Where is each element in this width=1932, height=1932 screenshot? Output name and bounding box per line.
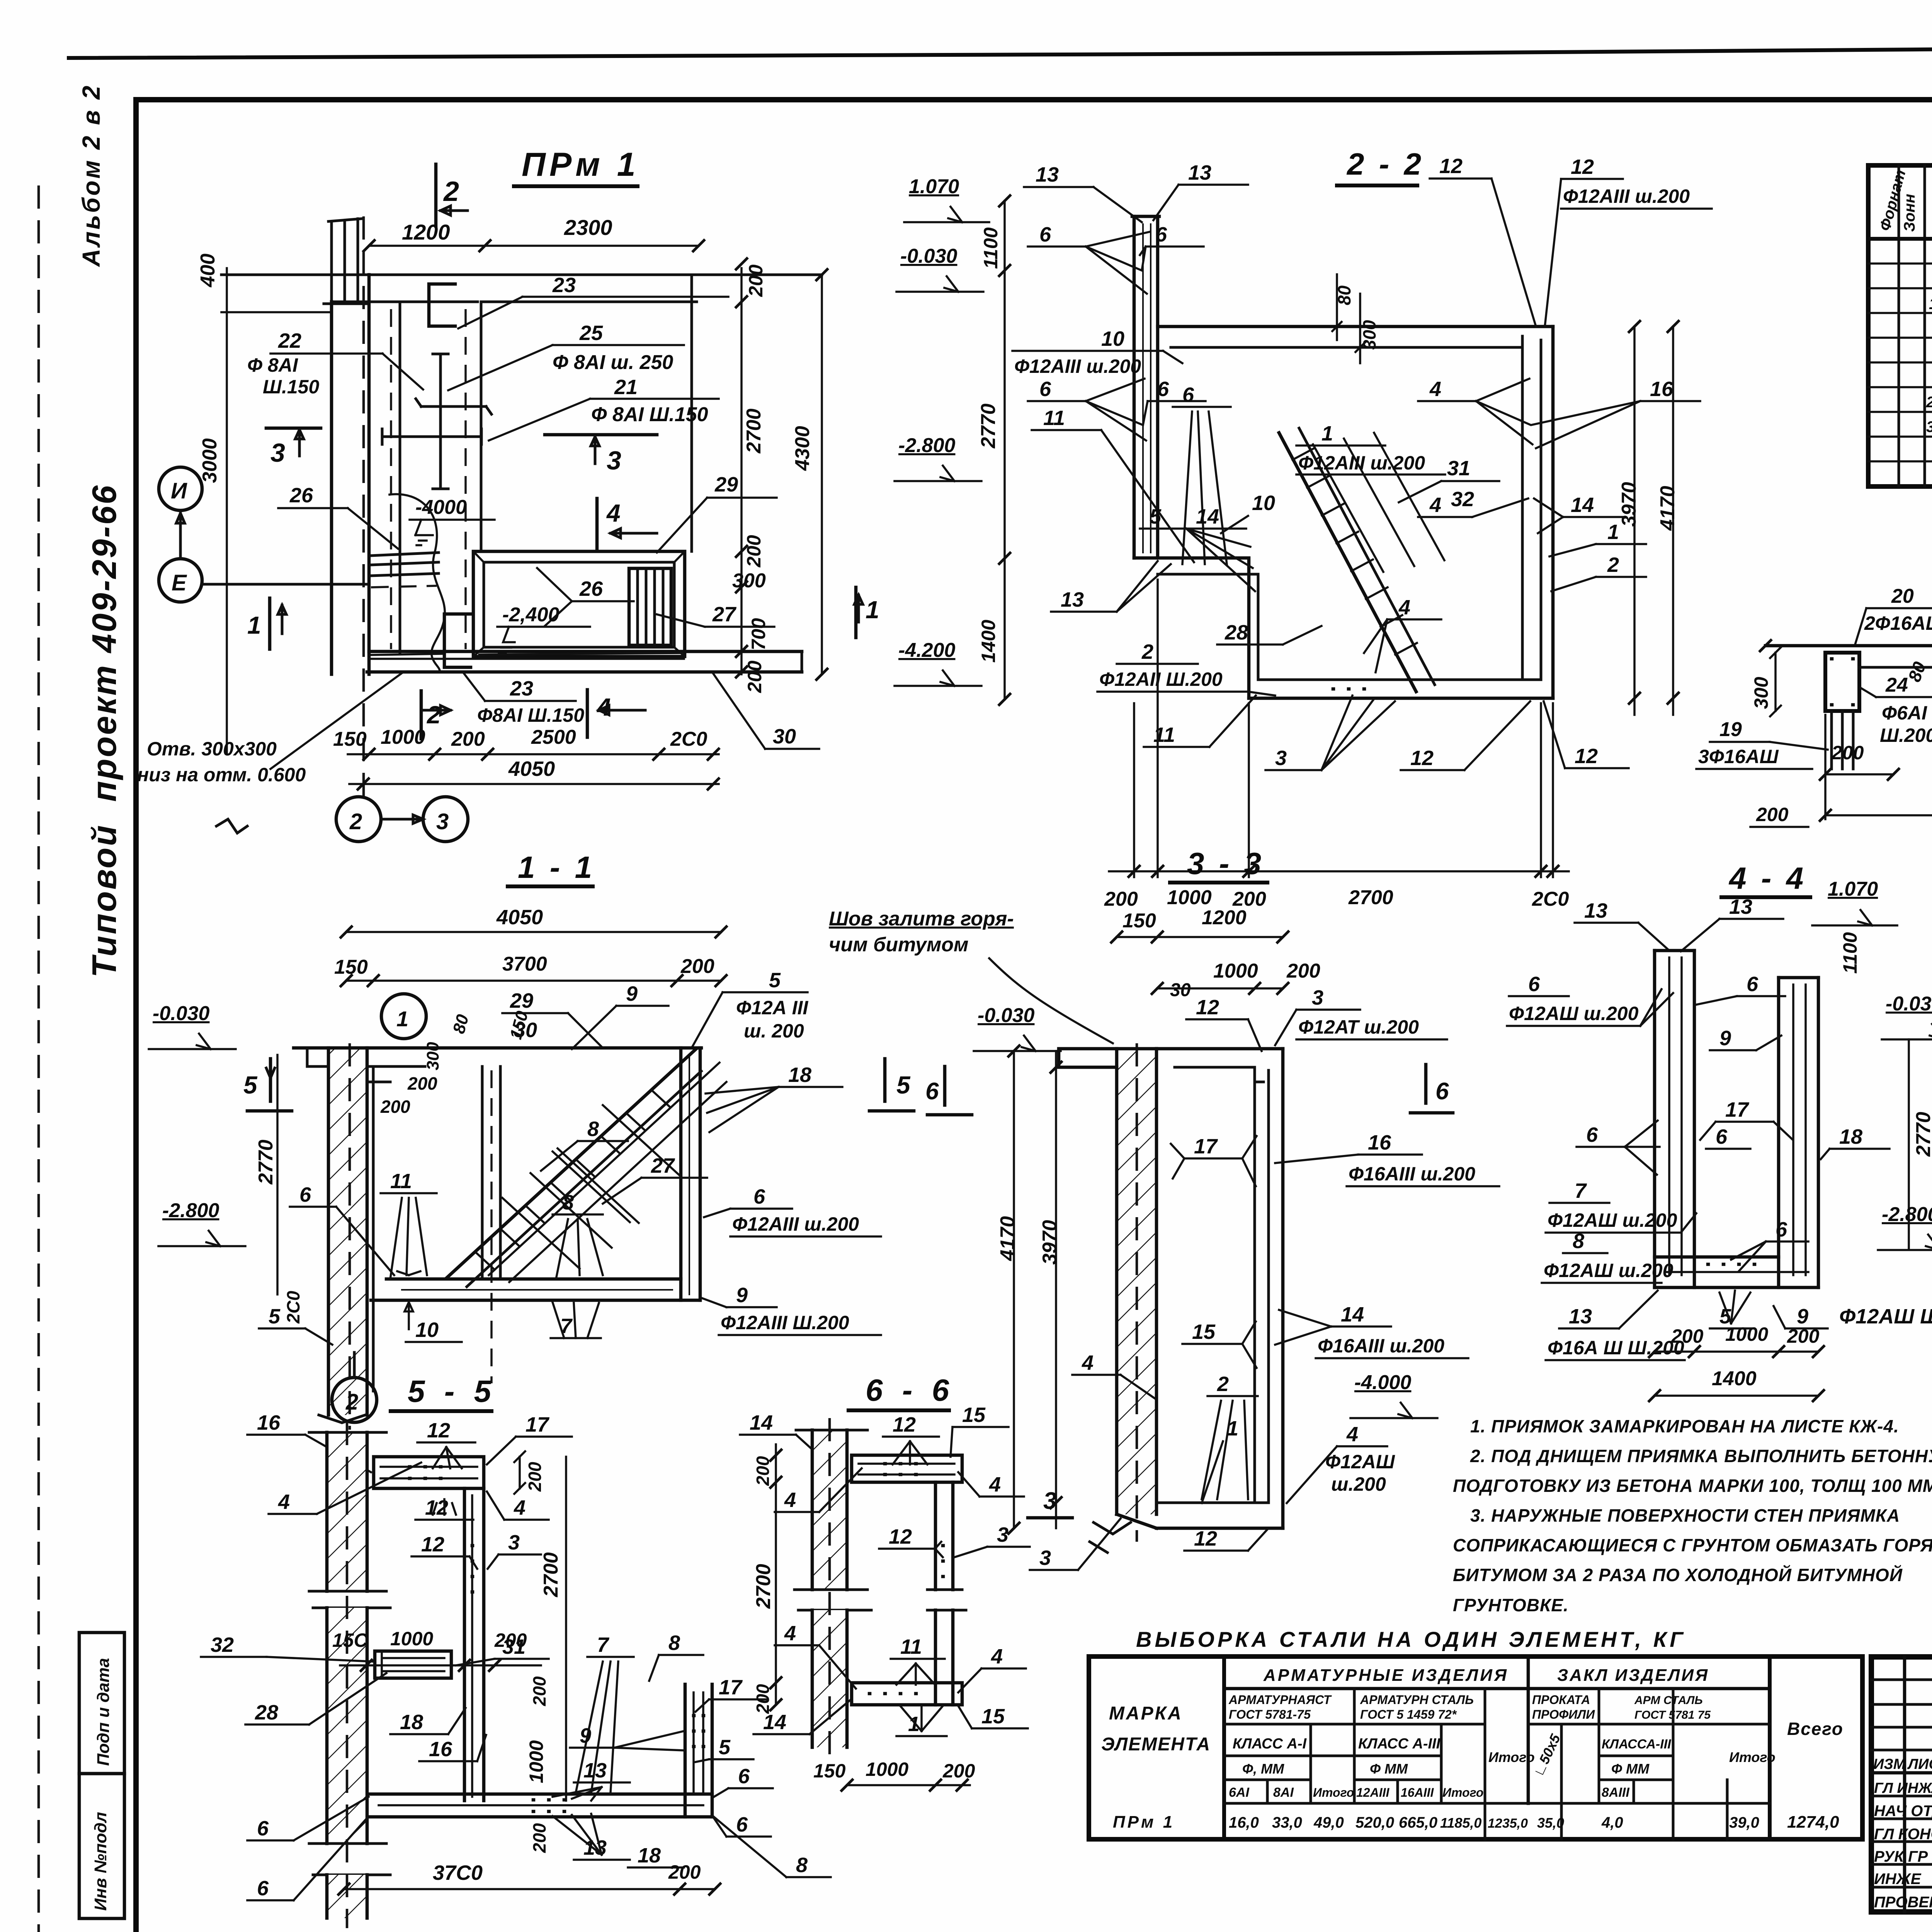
svg-text:700: 700 — [748, 618, 769, 650]
svg-text:21: 21 — [614, 376, 638, 399]
svg-text:6: 6 — [1039, 223, 1051, 246]
svg-text:3: 3 — [1039, 1546, 1051, 1570]
top ledge left — [1059, 1049, 1156, 1067]
svg-text:4: 4 — [1082, 1351, 1094, 1374]
svg-text:Ф16А Ш Ш.200: Ф16А Ш Ш.200 — [1548, 1337, 1684, 1359]
wall verticals — [330, 302, 333, 674]
svg-text:ПОДГОТОВКУ ИЗ БЕТОНА МАРКИ: ПОДГОТОВКУ ИЗ БЕТОНА МАРКИ 100, ТОЛЩ 100… — [1453, 1476, 1932, 1496]
svg-text:3 - 3: 3 - 3 — [1187, 846, 1264, 881]
bottom dim chain — [348, 753, 719, 755]
svg-text:11: 11 — [1043, 406, 1065, 430]
top slab line — [294, 1046, 701, 1050]
svg-text:6: 6 — [257, 1817, 269, 1840]
svg-text:520,0: 520,0 — [1355, 1814, 1394, 1831]
svg-text:200: 200 — [753, 1684, 773, 1714]
top slab — [1158, 325, 1553, 328]
svg-text:150: 150 — [813, 1760, 846, 1782]
svg-text:13: 13 — [1061, 588, 1084, 611]
svg-text:ЭЛЕМЕНТА: ЭЛЕМЕНТА — [1101, 1734, 1211, 1755]
right wall — [1521, 336, 1524, 680]
svg-text:АРМАТУРНАЯСТ: АРМАТУРНАЯСТ — [1228, 1693, 1332, 1707]
svg-text:25: 25 — [579, 321, 603, 345]
axis dash-dot line — [362, 216, 365, 797]
title block outer — [1871, 1657, 1932, 1912]
svg-text:8: 8 — [562, 1191, 574, 1214]
svg-text:22: 22 — [278, 329, 301, 352]
svg-text:3970: 3970 — [1039, 1220, 1061, 1265]
svg-text:ГРУНТОВКЕ.: ГРУНТОВКЕ. — [1453, 1595, 1569, 1615]
svg-text:13: 13 — [1188, 161, 1211, 184]
svg-text:4: 4 — [1398, 596, 1410, 619]
svg-text:3: 3 — [270, 438, 285, 468]
bracket mark top — [429, 284, 455, 326]
svg-text:10: 10 — [1101, 327, 1124, 350]
svg-text:12: 12 — [1410, 747, 1434, 770]
svg-text:49,0: 49,0 — [1313, 1814, 1344, 1831]
svg-text:200: 200 — [380, 1097, 410, 1117]
svg-text:-2.800: -2.800 — [162, 1199, 219, 1222]
section mark 4 — [595, 498, 599, 549]
svg-text:4: 4 — [989, 1473, 1001, 1496]
svg-text:1: 1 — [1607, 520, 1619, 544]
svg-text:Ф12АIII ш.200: Ф12АIII ш.200 — [1563, 185, 1690, 207]
svg-text:-4.200: -4.200 — [898, 639, 956, 662]
top beam element — [852, 1455, 962, 1482]
svg-text:18: 18 — [1839, 1125, 1862, 1148]
section mark 2 top — [434, 164, 438, 226]
svg-text:КЛАСС А-III: КЛАСС А-III — [1358, 1736, 1441, 1752]
svg-text:3: 3 — [436, 809, 449, 834]
svg-text:29,30: 29,30 — [1926, 394, 1932, 411]
svg-text:Ф12АIII ш.200: Ф12АIII ш.200 — [1014, 355, 1141, 377]
svg-text:32: 32 — [1451, 488, 1474, 511]
inner line — [1859, 667, 1932, 704]
right wall double — [1777, 978, 1781, 1287]
pit rectangle double — [473, 551, 685, 656]
svg-text:13: 13 — [1036, 163, 1059, 186]
svg-text:30: 30 — [1170, 980, 1191, 1000]
svg-text:ш.200: ш.200 — [1331, 1473, 1386, 1495]
svg-text:3: 3 — [508, 1531, 520, 1554]
svg-text:АРМАТУРН СТАЛЬ: АРМАТУРН СТАЛЬ — [1360, 1693, 1474, 1707]
svg-text:6: 6 — [1586, 1123, 1598, 1146]
right wall — [679, 1048, 683, 1300]
svg-text:1100: 1100 — [1839, 932, 1861, 974]
right wall verticals — [934, 1482, 937, 1590]
svg-text:АРМАТУРНЫЕ ИЗДЕЛИЯ: АРМАТУРНЫЕ ИЗДЕЛИЯ — [1263, 1666, 1509, 1685]
header row1 — [1224, 1687, 1770, 1690]
svg-text:1 - 1: 1 - 1 — [518, 850, 595, 884]
svg-text:2: 2 — [345, 1389, 358, 1415]
rebar dots on vertical element — [472, 1546, 473, 1592]
svg-text:200: 200 — [529, 1676, 549, 1706]
svg-text:16,0: 16,0 — [1229, 1814, 1259, 1831]
svg-text:4: 4 — [1429, 493, 1441, 517]
svg-text:200: 200 — [525, 1462, 545, 1492]
spec table grid — [1868, 165, 1932, 486]
svg-text:-2.800: -2.800 — [1882, 1203, 1932, 1226]
svg-text:6: 6 — [257, 1877, 269, 1900]
svg-text:Альбом 2 в 2: Альбом 2 в 2 — [77, 84, 105, 267]
svg-text:3: 3 — [1043, 1488, 1056, 1514]
svg-text:16АIII: 16АIII — [1401, 1786, 1434, 1799]
svg-text:2С0: 2С0 — [670, 728, 707, 750]
bottom wall lines — [369, 650, 802, 653]
svg-text:29: 29 — [714, 473, 738, 496]
svg-text:ИЗМ: ИЗМ — [1873, 1756, 1906, 1772]
svg-text:8: 8 — [1573, 1230, 1584, 1253]
svg-text:17: 17 — [719, 1676, 743, 1699]
svg-text:4: 4 — [991, 1645, 1003, 1668]
section mark 3 left — [266, 427, 321, 430]
svg-text:-4000: -4000 — [415, 496, 467, 519]
right dim chain 3970 4170 — [1634, 327, 1673, 715]
svg-text:1274,0: 1274,0 — [1787, 1813, 1839, 1832]
svg-text:14: 14 — [763, 1711, 786, 1734]
svg-text:10: 10 — [415, 1318, 439, 1342]
section mark 4 bottom — [586, 690, 589, 737]
svg-text:-4.000: -4.000 — [1354, 1371, 1412, 1394]
svg-text:17: 17 — [526, 1413, 550, 1436]
svg-text:26: 26 — [289, 484, 313, 507]
svg-text:-0.030: -0.030 — [900, 245, 957, 267]
svg-text:ПРм 1: ПРм 1 — [522, 146, 639, 183]
svg-text:1000: 1000 — [1167, 886, 1212, 909]
svg-text:16: 16 — [429, 1738, 452, 1761]
svg-text:11: 11 — [900, 1635, 922, 1658]
svg-text:28: 28 — [255, 1701, 278, 1724]
svg-text:6: 6 — [1528, 973, 1540, 996]
svg-text:АРМ СТАЛЬ: АРМ СТАЛЬ — [1634, 1694, 1703, 1707]
section mark 1 left — [268, 598, 272, 649]
svg-text:18: 18 — [400, 1711, 423, 1734]
svg-text:6: 6 — [1747, 973, 1759, 996]
svg-text:15: 15 — [981, 1705, 1005, 1728]
svg-text:9: 9 — [1797, 1305, 1808, 1328]
svg-text:9: 9 — [736, 1284, 748, 1307]
svg-text:13: 13 — [1584, 899, 1607, 922]
svg-text:200: 200 — [942, 1760, 975, 1782]
bottom slab — [1249, 697, 1553, 700]
svg-text:ПРОВЕР: ПРОВЕР — [1874, 1894, 1932, 1911]
rebar cross symbols — [433, 354, 448, 489]
svg-text:13: 13 — [1569, 1305, 1592, 1328]
svg-text:Ф16АIII ш.200: Ф16АIII ш.200 — [1349, 1163, 1475, 1185]
stair diagonal band — [1279, 433, 1416, 692]
svg-text:МАРКА: МАРКА — [1109, 1703, 1183, 1724]
bottom dim 3700 200 — [344, 1888, 715, 1890]
svg-text:Всего: Всего — [1787, 1719, 1844, 1739]
svg-text:200: 200 — [529, 1823, 549, 1853]
svg-text:1: 1 — [1227, 1417, 1238, 1440]
svg-text:400: 400 — [197, 253, 219, 287]
svg-text:300: 300 — [1750, 677, 1772, 709]
svg-text:Ш.150: Ш.150 — [263, 376, 319, 398]
svg-text:2: 2 — [1607, 553, 1619, 577]
6 section marks — [1410, 1065, 1453, 1113]
svg-text:5: 5 — [1150, 505, 1162, 528]
svg-text:2700: 2700 — [540, 1552, 562, 1597]
svg-text:Итого: Итого — [1442, 1786, 1483, 1799]
svg-text:20: 20 — [1891, 585, 1914, 607]
svg-text:ГЛ ИНЖЛА: ГЛ ИНЖЛА — [1874, 1780, 1932, 1796]
svg-text:4 - 4: 4 - 4 — [1728, 861, 1806, 895]
svg-text:2700: 2700 — [1348, 886, 1393, 909]
grate bars — [629, 568, 671, 645]
svg-text:12: 12 — [889, 1525, 912, 1548]
svg-text:13: 13 — [1729, 895, 1752, 918]
svg-text:4: 4 — [1346, 1423, 1358, 1446]
svg-text:15С: 15С — [332, 1629, 368, 1651]
svg-text:2300: 2300 — [564, 215, 612, 240]
svg-text:Ф8АI Ш.150: Ф8АI Ш.150 — [477, 704, 584, 726]
svg-text:200: 200 — [1286, 960, 1320, 982]
svg-text:200: 200 — [407, 1073, 437, 1094]
wavy region boundary — [389, 494, 445, 672]
svg-text:27: 27 — [651, 1154, 675, 1177]
svg-text:5 - 5: 5 - 5 — [408, 1374, 497, 1408]
svg-text:6: 6 — [1435, 1078, 1449, 1105]
top wall stub — [328, 219, 361, 304]
svg-text:4: 4 — [278, 1490, 290, 1514]
right wall — [1253, 1082, 1256, 1503]
svg-text:3: 3 — [1312, 986, 1323, 1009]
left wall double — [1653, 951, 1656, 1287]
svg-text:2770: 2770 — [1912, 1112, 1932, 1157]
svg-text:ПРм 1: ПРм 1 — [1113, 1813, 1175, 1832]
title block vertical grid left part — [1903, 1657, 1906, 1912]
svg-text:37С0: 37С0 — [433, 1861, 483, 1884]
svg-text:150: 150 — [1122, 910, 1156, 932]
svg-text:1.070: 1.070 — [909, 175, 959, 198]
svg-text:Подп и дата: Подп и дата — [94, 1658, 113, 1766]
svg-text:8: 8 — [668, 1631, 680, 1655]
bottom slab — [852, 1683, 962, 1705]
svg-text:чим битумом: чим битумом — [829, 934, 969, 956]
svg-text:2770: 2770 — [255, 1139, 277, 1185]
svg-text:Шов залитв горя-: Шов залитв горя- — [829, 908, 1014, 930]
svg-text:1: 1 — [396, 1007, 408, 1031]
svg-text:4: 4 — [784, 1488, 796, 1512]
svg-text:2: 2 — [1141, 640, 1153, 663]
svg-text:ПРОКАТА: ПРОКАТА — [1532, 1693, 1590, 1707]
svg-text:Ф12АIII ш.200: Ф12АIII ш.200 — [732, 1213, 859, 1235]
rebar dot clusters in slab — [533, 1800, 565, 1811]
lines at -4000 shelf — [371, 553, 439, 576]
svg-text:ВЫБОРКА СТАЛИ НА ОДИН ЭЛЕМЕНТ,: ВЫБОРКА СТАЛИ НА ОДИН ЭЛЕМЕНТ, КГ — [1136, 1627, 1686, 1651]
svg-text:7: 7 — [597, 1633, 610, 1656]
svg-text:Итого: Итого — [1488, 1749, 1535, 1765]
svg-text:200: 200 — [1756, 804, 1789, 825]
break squiggle on left dim — [216, 819, 247, 833]
svg-text:9: 9 — [626, 982, 638, 1005]
svg-text:12: 12 — [893, 1413, 916, 1436]
svg-text:200: 200 — [745, 264, 767, 297]
vertical element — [463, 1488, 466, 1801]
hatched wall — [328, 1048, 367, 1415]
svg-text:6: 6 — [1157, 378, 1169, 401]
svg-text:12: 12 — [427, 1419, 450, 1442]
svg-text:6: 6 — [738, 1765, 750, 1788]
svg-text:35,0: 35,0 — [1537, 1815, 1564, 1831]
svg-text:1000: 1000 — [1213, 960, 1258, 982]
svg-text:4,0: 4,0 — [1601, 1814, 1623, 1831]
bottom dim chain — [1134, 580, 1553, 877]
svg-text:5: 5 — [719, 1736, 731, 1759]
svg-text:Ш.200: Ш.200 — [1880, 724, 1932, 746]
svg-text:1235,0: 1235,0 — [1488, 1816, 1528, 1831]
svg-text:Ф12АТ ш.200: Ф12АТ ш.200 — [1298, 1016, 1419, 1038]
svg-text:2: 2 — [1217, 1372, 1229, 1396]
lower verticals from column — [1832, 711, 1853, 769]
svg-text:1400: 1400 — [978, 620, 999, 663]
svg-text:-2,400: -2,400 — [502, 604, 560, 626]
svg-text:НАЧ ОТД.: НАЧ ОТД. — [1874, 1803, 1932, 1820]
svg-text:12: 12 — [421, 1533, 444, 1556]
5 section marks — [247, 1059, 292, 1111]
svg-text:6: 6 — [1182, 383, 1194, 406]
svg-text:ГОСТ 5781-75: ГОСТ 5781-75 — [1229, 1708, 1311, 1721]
svg-text:12АIII: 12АIII — [1356, 1786, 1389, 1799]
svg-text:17: 17 — [1194, 1135, 1218, 1158]
header row2 — [1224, 1723, 1485, 1726]
vyborka grid — [1089, 1656, 1862, 1839]
svg-text:28: 28 — [1225, 621, 1248, 644]
svg-text:4170: 4170 — [997, 1216, 1019, 1261]
svg-text:ГЛ КОНСТ: ГЛ КОНСТ — [1874, 1826, 1932, 1843]
ladder grid extra — [531, 1148, 639, 1248]
svg-text:29: 29 — [510, 989, 533, 1012]
right dim chain — [740, 268, 743, 674]
svg-text:2С0: 2С0 — [283, 1291, 303, 1324]
svg-text:3700: 3700 — [502, 953, 547, 975]
svg-text:-0.030: -0.030 — [978, 1004, 1035, 1027]
svg-text:24: 24 — [1885, 674, 1908, 696]
svg-text:2. ПОД ДНИЩЕМ ПРИЯМКА ВЫПОЛ: 2. ПОД ДНИЩЕМ ПРИЯМКА ВЫПОЛНИТЬ БЕТОННУЮ — [1470, 1446, 1932, 1466]
svg-text:3970: 3970 — [1618, 482, 1640, 527]
svg-text:6: 6 — [1155, 223, 1167, 246]
top slab right — [1156, 1047, 1283, 1051]
svg-text:2: 2 — [443, 176, 459, 207]
step ledge — [1134, 558, 1249, 698]
svg-text:11: 11 — [390, 1170, 412, 1193]
svg-text:14: 14 — [750, 1411, 773, 1434]
svg-text:Ф 8АI Ш.150: Ф 8АI Ш.150 — [591, 403, 708, 426]
svg-text:4050: 4050 — [496, 906, 543, 929]
svg-text:1: 1 — [1321, 422, 1333, 445]
svg-text:Ф12АШ ш.200: Ф12АШ ш.200 — [1548, 1209, 1677, 1231]
svg-text:Ф6АI: Ф6АI — [1882, 702, 1927, 724]
svg-text:5: 5 — [896, 1071, 911, 1099]
svg-text:низ на отм. 0.600: низ на отм. 0.600 — [137, 764, 306, 786]
svg-text:12: 12 — [1571, 155, 1594, 179]
bottom slab — [371, 1299, 700, 1302]
svg-text:13: 13 — [583, 1759, 607, 1782]
svg-text:200: 200 — [680, 955, 714, 978]
left wall verticals — [1133, 216, 1136, 558]
svg-text:Ф12АШ Ш.200: Ф12АШ Ш.200 — [1839, 1305, 1932, 1328]
svg-text:12: 12 — [1194, 1527, 1217, 1550]
svg-text:17: 17 — [1725, 1098, 1750, 1121]
top dim line 1200 2300 — [369, 245, 699, 247]
svg-text:9: 9 — [580, 1724, 591, 1747]
svg-text:РУК ГР: РУК ГР — [1874, 1848, 1928, 1865]
svg-text:300: 300 — [732, 570, 766, 592]
svg-text:3: 3 — [997, 1523, 1009, 1546]
svg-text:КЛАССА-III: КЛАССА-III — [1602, 1737, 1672, 1752]
svg-text:12: 12 — [1196, 996, 1219, 1019]
rebar dots bottom slab — [1333, 687, 1364, 691]
svg-text:23: 23 — [552, 274, 576, 297]
svg-text:200: 200 — [753, 1456, 773, 1486]
svg-text:3: 3 — [1275, 747, 1287, 770]
svg-text:2500: 2500 — [531, 726, 576, 748]
svg-text:23: 23 — [510, 677, 533, 700]
svg-text:26: 26 — [579, 577, 603, 600]
hatched wall — [1117, 1049, 1156, 1514]
column section rect — [1825, 653, 1859, 711]
section mark 2 bottom — [420, 691, 423, 739]
svg-text:665,0: 665,0 — [1399, 1814, 1437, 1831]
left dim chain — [1003, 201, 1006, 699]
svg-text:БИТУМОМ ЗА 2 РАЗА ПО: БИТУМОМ ЗА 2 РАЗА ПО ХОЛОДНОЙ БИТУМНОЙ — [1453, 1565, 1903, 1585]
svg-text:3000: 3000 — [199, 438, 221, 483]
svg-text:Ф, ММ: Ф, ММ — [1242, 1761, 1284, 1777]
svg-text:4: 4 — [606, 499, 621, 527]
bottom slab — [1156, 1502, 1269, 1504]
svg-text:15: 15 — [1192, 1320, 1216, 1344]
svg-text:200: 200 — [743, 535, 765, 568]
svg-text:Ф12АIII ш.200: Ф12АIII ш.200 — [1298, 452, 1425, 474]
circle 1 — [381, 994, 426, 1039]
svg-text:Отв. 300х300: Отв. 300х300 — [147, 738, 277, 760]
svg-text:2: 2 — [427, 701, 441, 729]
svg-text:10: 10 — [1252, 492, 1275, 515]
svg-text:5: 5 — [243, 1071, 258, 1099]
outer top line — [69, 43, 1932, 58]
svg-text:9: 9 — [1719, 1027, 1731, 1050]
svg-text:12: 12 — [1575, 745, 1598, 768]
svg-text:1000: 1000 — [526, 1740, 547, 1783]
svg-text:6 - 6: 6 - 6 — [866, 1373, 954, 1407]
svg-text:1000: 1000 — [866, 1759, 908, 1780]
svg-text:30: 30 — [773, 725, 796, 748]
svg-text:32: 32 — [211, 1633, 234, 1656]
svg-text:Ф12АШ ш.200: Ф12АШ ш.200 — [1509, 1003, 1639, 1024]
svg-text:3. НАРУЖНЫЕ ПОВЕРХНОСТИ СТЕН: 3. НАРУЖНЫЕ ПОВЕРХНОСТИ СТЕН ПРИЯМКА — [1470, 1505, 1900, 1526]
svg-text:1: 1 — [866, 596, 879, 624]
svg-text:8АIII: 8АIII — [1602, 1785, 1630, 1800]
svg-text:8: 8 — [796, 1854, 808, 1877]
svg-text:8АI: 8АI — [1273, 1785, 1294, 1800]
left stamp box lower — [79, 1774, 124, 1918]
small step right of wall — [367, 1081, 390, 1083]
svg-text:4: 4 — [514, 1496, 526, 1519]
svg-text:Типовой проект 409-29-66: Типовой проект 409-29-66 — [85, 484, 123, 978]
svg-text:12: 12 — [1439, 155, 1463, 178]
svg-text:1. ПРИЯМОК ЗАМАРКИРОВАН НА: 1. ПРИЯМОК ЗАМАРКИРОВАН НА ЛИСТЕ КЖ-4. — [1470, 1416, 1899, 1436]
svg-text:-0.030: -0.030 — [153, 1002, 210, 1025]
bottom slab — [1655, 1257, 1818, 1287]
svg-text:1-25: 1-25 — [1929, 294, 1932, 313]
svg-text:5: 5 — [769, 969, 781, 992]
top line — [1765, 644, 1932, 648]
svg-text:ЗАКЛ ИЗДЕЛИЯ: ЗАКЛ ИЗДЕЛИЯ — [1557, 1666, 1709, 1685]
svg-text:2700: 2700 — [752, 1564, 775, 1609]
svg-text:6АI: 6АI — [1229, 1785, 1250, 1800]
svg-text:4: 4 — [1429, 378, 1441, 401]
svg-text:200: 200 — [668, 1861, 701, 1883]
